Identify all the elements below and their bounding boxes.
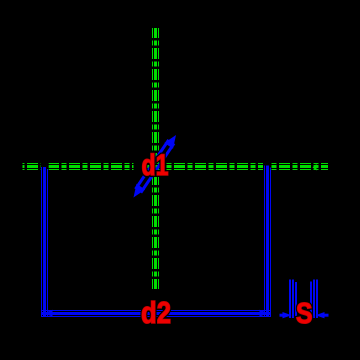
svg-text:d1: d1 bbox=[142, 149, 169, 182]
svg-text:S: S bbox=[296, 298, 313, 330]
svg-text:d2: d2 bbox=[141, 295, 171, 330]
